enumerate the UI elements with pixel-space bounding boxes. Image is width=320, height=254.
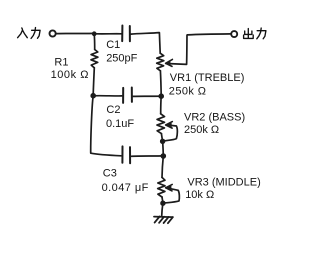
potentiometer VR2 bbox=[157, 114, 165, 134]
resistor R1 branch wire from node A bbox=[93, 34, 96, 50]
svg-text:0.047 μF: 0.047 μF bbox=[102, 182, 149, 194]
wire VR3 to node F bbox=[161, 197, 164, 203]
resistor R1 bbox=[91, 50, 98, 68]
svg-text:VR2 (BASS): VR2 (BASS) bbox=[184, 112, 245, 124]
wire input to node A bbox=[56, 32, 94, 34]
ground bbox=[154, 217, 173, 224]
node D junction bbox=[160, 139, 165, 144]
wire VR1 bottom to node B bbox=[159, 71, 162, 96]
wire node D to node E bbox=[162, 141, 165, 156]
svg-text:R1: R1 bbox=[54, 57, 68, 69]
svg-text:100k Ω: 100k Ω bbox=[51, 69, 89, 81]
output terminal bbox=[231, 31, 237, 37]
input terminal bbox=[50, 30, 56, 36]
svg-text:250k Ω: 250k Ω bbox=[184, 124, 219, 136]
wire C1 to VR1 top (corner) bbox=[131, 33, 160, 54]
svg-text:250pF: 250pF bbox=[106, 52, 137, 64]
wire R1 to node C bbox=[93, 68, 94, 96]
wire VR2 to node D bbox=[161, 134, 162, 141]
node A junction bbox=[92, 32, 96, 36]
left wire node C down to row 3 bbox=[91, 96, 121, 156]
wire C2 to node B bbox=[133, 95, 161, 97]
wire node E to VR3 bbox=[162, 156, 163, 177]
svg-text:0.1uF: 0.1uF bbox=[106, 118, 134, 130]
node B junction bbox=[159, 94, 164, 99]
svg-text:VR3 (MIDDLE): VR3 (MIDDLE) bbox=[187, 177, 260, 189]
potentiometer VR1 bbox=[157, 53, 164, 71]
svg-text:250k Ω: 250k Ω bbox=[169, 85, 207, 97]
label 出力 (output) bbox=[244, 28, 266, 39]
wire node C to C2 bbox=[93, 95, 122, 97]
svg-text:C1: C1 bbox=[106, 39, 120, 51]
svg-text:C3: C3 bbox=[103, 168, 117, 180]
VR2 wiper arrow looped to bottom terminal bbox=[163, 125, 177, 141]
VR1 wiper arrow and wire to output bbox=[166, 34, 231, 65]
node E junction bbox=[161, 154, 166, 159]
node F junction bbox=[161, 201, 166, 206]
capacitor C2 bbox=[123, 88, 132, 103]
svg-text:C2: C2 bbox=[106, 104, 120, 116]
label 入力 (input) bbox=[18, 28, 40, 39]
wire C3 to node E bbox=[131, 155, 163, 157]
capacitor C1 bbox=[122, 26, 130, 42]
wire node F to ground bbox=[162, 203, 163, 216]
capacitor C3 bbox=[122, 146, 130, 163]
wire node B to VR2 bbox=[160, 96, 163, 114]
wire node A to C1 bbox=[94, 33, 121, 35]
VR3 wiper arrow looped to bottom terminal bbox=[163, 188, 179, 204]
svg-text:10k Ω: 10k Ω bbox=[185, 189, 214, 201]
potentiometer VR3 bbox=[158, 177, 165, 197]
node C junction bbox=[91, 93, 96, 98]
svg-text:VR1 (TREBLE): VR1 (TREBLE) bbox=[170, 72, 245, 84]
